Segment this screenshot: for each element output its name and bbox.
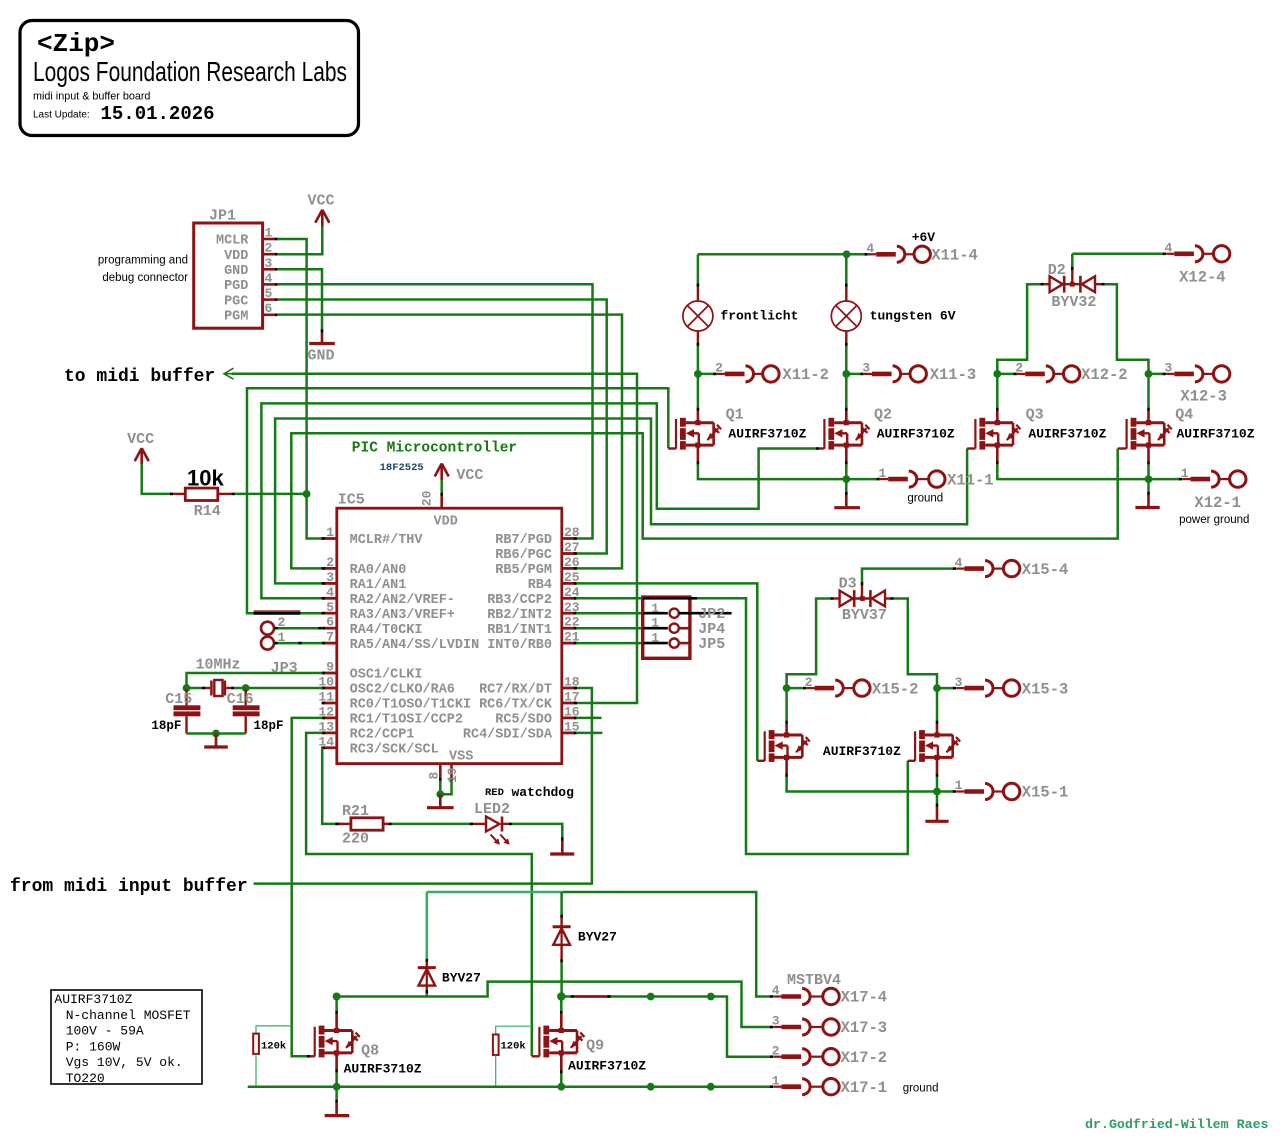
wire INT0 to JP5 [576, 642, 641, 645]
junction X15-1 node [933, 788, 941, 796]
wire RB3 net a [576, 597, 643, 600]
wire RB3 net b to X15 right gate [697, 598, 908, 854]
IC5 pin 21 INT0/RB0 [487, 630, 580, 653]
svg-text:18pF: 18pF [151, 719, 181, 733]
svg-text:VDD: VDD [434, 515, 458, 530]
wire X15 right drain [936, 688, 939, 721]
wire +6V rail [698, 253, 865, 256]
tungsten top lead [845, 284, 848, 287]
transistor Q8 [315, 1026, 422, 1077]
Q8 source lead [335, 1053, 338, 1070]
D2 right lead [1095, 283, 1101, 285]
svg-text:tungsten 6V: tungsten 6V [870, 309, 956, 324]
svg-text:RC2/CCP1: RC2/CCP1 [350, 728, 415, 743]
svg-text:Q8: Q8 [361, 1043, 379, 1060]
junction R14-MCLR [303, 490, 311, 498]
wire tungsten top [845, 254, 848, 284]
wire RB1 to JP4 [576, 627, 641, 630]
wire Q2 drain [845, 374, 848, 408]
tungsten bottom lead [845, 331, 847, 343]
JP1 pin 2 stub [263, 241, 278, 256]
wire Q8 source [335, 1072, 338, 1087]
junction X11-2 node [694, 370, 702, 378]
wire flyback rail [563, 892, 771, 997]
wire Q1 gate lead [668, 447, 676, 449]
diode D3 BYV37 [839, 576, 887, 625]
wire pin20 to VCC [440, 480, 443, 493]
JP1 pin 3 stub [263, 256, 278, 271]
svg-text:RB5/PGM: RB5/PGM [495, 563, 552, 578]
Q3 source lead [996, 445, 999, 462]
Q9 source lead [560, 1053, 563, 1071]
svg-text:MSTBV4: MSTBV4 [787, 972, 841, 989]
wire RC6 to midi buffer [232, 374, 637, 703]
svg-text:MCLR: MCLR [216, 234, 249, 249]
diode D2 BYV32 [1048, 262, 1097, 311]
Q1 source lead [697, 445, 700, 462]
transistor Q1 [676, 407, 807, 450]
Q3 drain lead [996, 408, 999, 411]
svg-text:from midi input buffer: from midi input buffer [10, 877, 248, 897]
IC5 pin 7 RA5/AN4/SS/LVDIN [322, 630, 480, 653]
wire Q9 drain to X17-2 [561, 997, 770, 1057]
X15 left mosfet drain lead [785, 721, 788, 724]
svg-text:1: 1 [651, 616, 659, 631]
svg-text:X12-2: X12-2 [1081, 366, 1128, 384]
wire RB3 black over JP2 box [643, 597, 697, 600]
connector X12-3 [1163, 361, 1230, 406]
transistor Q2 [824, 407, 955, 450]
frontlicht bottom lead [697, 331, 699, 343]
connector X11-3 [860, 361, 976, 385]
node to midi buffer arrow [224, 368, 234, 379]
wire Q8 source to ground sym [335, 1087, 338, 1101]
svg-text:10MHz: 10MHz [196, 657, 241, 674]
IC5 pin 6 RA4/T0CKI [322, 615, 423, 638]
wire dark red segment on X17-2 net [574, 995, 607, 998]
wire PGM JP1 pin6 to IC5 pin26 [277, 315, 622, 569]
svg-text:4: 4 [1164, 241, 1172, 256]
svg-text:18F2525: 18F2525 [380, 462, 424, 474]
svg-text:programming and: programming and [98, 255, 188, 267]
wire X15 ground [936, 792, 939, 805]
connector X15-2 [803, 675, 918, 699]
ground below crystal caps [204, 734, 228, 748]
IC5 pin 25 RB4 [528, 570, 580, 593]
ground below LED2 [550, 837, 574, 854]
wire Q8 drain down [335, 997, 338, 1012]
JP1 pin 5 stub [263, 286, 278, 301]
diode BYV27 right [553, 927, 617, 945]
svg-text:4: 4 [265, 271, 273, 286]
resistor 120k at Q9 [493, 1026, 532, 1087]
JP1 pin 1 stub [263, 226, 278, 241]
wire RA1 to Q3 gate [275, 419, 967, 584]
junction dot b on X17-2 net [707, 993, 715, 1001]
IC5 pin 11 RC0/T1OSO/T1CKI [318, 690, 471, 713]
svg-text:<Zip>: <Zip> [37, 29, 115, 59]
op-amp IC5 PIC box [337, 508, 562, 763]
svg-text:2: 2 [1015, 361, 1023, 376]
wire RC4 stub [576, 732, 602, 735]
wire Q4 gate lead [1118, 447, 1127, 449]
connector X17-2 [770, 1043, 887, 1067]
svg-text:VCC: VCC [127, 431, 154, 448]
svg-text:RC0/T1OSO/T1CKI: RC0/T1OSO/T1CKI [350, 698, 472, 713]
IC5 pin 8 VSS stub [439, 764, 442, 779]
svg-text:3: 3 [862, 361, 870, 376]
tick JP3 wire a [274, 627, 277, 630]
svg-text:AUIRF3710Z: AUIRF3710Z [877, 426, 955, 441]
svg-text:BYV27: BYV27 [442, 971, 481, 986]
svg-text:AUIRF3710Z: AUIRF3710Z [823, 744, 901, 759]
IC5 pin 3 RA1/AN1 [322, 570, 407, 593]
junction +6V tungsten [843, 250, 851, 258]
tick JP3 wire b [274, 642, 277, 645]
wire RB2 to JP2 [576, 612, 641, 615]
svg-text:X17-2: X17-2 [841, 1049, 888, 1067]
wire RC3 to R21 [322, 748, 343, 824]
wire Q3 drain [996, 374, 999, 408]
IC5 pin 20 VDD stub [440, 495, 443, 508]
connector X15-1 [953, 778, 1069, 802]
junction Q4 source [1145, 475, 1153, 483]
connector X12-1 [1179, 466, 1250, 526]
wire Q2 source to ground [845, 479, 848, 492]
JP1 pin 4 stub [263, 271, 278, 286]
wire Q1 drain [697, 374, 700, 408]
svg-text:midi input & buffer board: midi input & buffer board [33, 91, 150, 103]
wire pin8 to gnd [439, 781, 442, 795]
transistor Q3 [975, 407, 1106, 450]
svg-text:7: 7 [326, 630, 334, 645]
svg-text:9: 9 [326, 660, 334, 675]
IC5 pin 26 RB5/PGM [495, 555, 580, 578]
wire BYV27b top [560, 892, 563, 915]
connector X17-1 [770, 1073, 939, 1097]
svg-text:X15-3: X15-3 [1022, 680, 1069, 698]
wire X15 right gate lead [908, 760, 915, 762]
wire Q9 source [560, 1073, 563, 1087]
svg-text:AUIRF3710Z: AUIRF3710Z [344, 1062, 422, 1077]
junction pins 8-19 [436, 790, 444, 798]
LED LED2 [470, 785, 574, 845]
wire D3 anode right [894, 599, 937, 689]
title block frame [20, 21, 359, 136]
junction Q8 source [333, 1083, 341, 1091]
wire crystal right to OSC2 [234, 687, 246, 690]
X15 right mosfet drain lead [936, 721, 939, 724]
wire Q9 gate lead [532, 1055, 540, 1057]
IC5 pin 5 RA3/AN3/VREF+ [322, 600, 455, 623]
connector X11-1 [877, 466, 994, 505]
svg-text:5: 5 [326, 600, 334, 615]
junction dot a on ground rail [647, 1083, 655, 1091]
wire MCLR net JP1 to IC5 pin1 and R14 [277, 239, 322, 539]
X15 left source lead [785, 757, 788, 774]
svg-text:1: 1 [955, 778, 963, 793]
svg-text:VCC: VCC [456, 467, 483, 484]
svg-text:X12-1: X12-1 [1194, 494, 1241, 512]
transistor Q right of X15 [915, 730, 960, 762]
LED2 lead right [502, 823, 509, 825]
connector X17-3 [770, 1014, 887, 1038]
wire to X15-2 [787, 687, 804, 690]
IC5 pin 17 RC6/TX/CK [479, 690, 580, 713]
svg-text:1: 1 [878, 466, 886, 481]
svg-text:14: 14 [318, 734, 334, 749]
svg-text:10k: 10k [187, 466, 224, 491]
svg-text:220: 220 [342, 831, 369, 848]
svg-text:X17-1: X17-1 [841, 1079, 888, 1097]
svg-text:AUIRF3710Z: AUIRF3710Z [54, 992, 132, 1007]
svg-text:OSC2/CLKO/RA6: OSC2/CLKO/RA6 [350, 683, 455, 698]
svg-text:2: 2 [772, 1043, 780, 1058]
wire ground rail to X17-1 [248, 1085, 771, 1088]
wire RC2 to Q9 gate [306, 733, 532, 1056]
wire D3 anode left [787, 599, 831, 689]
svg-text:frontlicht: frontlicht [720, 309, 798, 324]
junction Q9 drain [557, 992, 565, 1000]
D3 right lead [885, 597, 890, 599]
D3 center lead [861, 582, 864, 585]
wire D2 anode left to Q3 drain node [997, 284, 1040, 374]
connector X11-2 [713, 361, 829, 385]
connector X12-2 [1014, 361, 1128, 385]
wire VCC to R14 [142, 464, 172, 494]
svg-text:RED: RED [485, 787, 504, 799]
svg-text:Q1: Q1 [726, 407, 744, 424]
wire VDD JP1 pin2 to VCC [277, 225, 322, 254]
IC5 pin 14 RC3/SCK/SCL [318, 734, 438, 757]
wire RC5 stub [576, 717, 601, 720]
svg-text:dr.Godfried-Willem Raes: dr.Godfried-Willem Raes [1085, 1117, 1269, 1132]
svg-text:X11-2: X11-2 [782, 366, 829, 384]
wire RA3 to Q1 gate [247, 388, 668, 613]
svg-text:18: 18 [564, 675, 580, 690]
wire X15-4 net [862, 569, 953, 583]
svg-text:AUIRF3710Z: AUIRF3710Z [1028, 426, 1106, 441]
Q2 source lead [845, 445, 848, 462]
svg-text:PIC Microcontroller: PIC Microcontroller [352, 441, 517, 457]
wire R21 to LED2 [392, 823, 472, 826]
BYV27a bottom lead [426, 986, 428, 991]
svg-text:120k: 120k [261, 1041, 286, 1053]
svg-text:1: 1 [265, 226, 273, 241]
IC5 pin 19 VSS stub [450, 764, 453, 779]
diode BYV27 left [418, 968, 481, 986]
Q1 drain lead [697, 408, 700, 411]
Q4 source lead [1147, 445, 1150, 462]
D2 left lead [1044, 283, 1050, 285]
wire D2 anode right to Q4 drain node [1105, 284, 1149, 374]
svg-text:RC7/RX/DT: RC7/RX/DT [479, 683, 552, 698]
wire X15 sources [787, 777, 937, 792]
junction X11-3 node [842, 370, 850, 378]
wire RA2 to Q2 gate [261, 403, 816, 598]
IC5 pin 16 RC5/SDO [495, 704, 580, 727]
junction crystal right [242, 684, 250, 692]
IC5 pin 28 RB7/PGD [495, 525, 580, 548]
svg-text:RB3/CCP2: RB3/CCP2 [487, 593, 552, 608]
svg-text:4: 4 [866, 241, 874, 256]
svg-text:Logos Foundation Research Labs: Logos Foundation Research Labs [33, 56, 347, 87]
svg-text:RB1/INT1: RB1/INT1 [487, 623, 552, 638]
connector JP3 pin 1 [261, 637, 274, 650]
svg-text:VSS: VSS [449, 750, 473, 765]
wire Q1 source to X11-1 [698, 464, 877, 479]
power VCC at JP1 [308, 193, 335, 227]
connector JP2 JP4 JP5 box [643, 597, 690, 658]
svg-text:8: 8 [426, 772, 441, 780]
power VCC at R14 [127, 431, 154, 465]
svg-text:2: 2 [715, 361, 723, 376]
svg-text:RA3/AN3/VREF+: RA3/AN3/VREF+ [350, 608, 455, 623]
wire OSC1 to crystal [187, 673, 323, 688]
wire frontlicht bottom [697, 346, 700, 374]
svg-text:3: 3 [955, 675, 963, 690]
connector JP5 pin [643, 631, 725, 654]
svg-text:3: 3 [265, 256, 273, 271]
svg-text:IC5: IC5 [338, 492, 365, 509]
junction caps ground [212, 730, 220, 738]
wire X15 left gate lead [757, 760, 764, 762]
svg-text:11: 11 [318, 690, 334, 705]
svg-text:RA0/AN0: RA0/AN0 [350, 563, 407, 578]
wire LED2 to ground [512, 824, 562, 838]
svg-text:BYV27: BYV27 [578, 930, 617, 945]
capacitor C16 [227, 689, 284, 734]
junction dot b on ground rail [707, 1083, 715, 1091]
capacitor C15 [151, 689, 200, 734]
svg-text:RB2/INT2: RB2/INT2 [487, 608, 552, 623]
svg-text:GND: GND [308, 347, 335, 364]
IC5 pin 10 OSC2/CLKO/RA6 [318, 675, 455, 698]
svg-text:1: 1 [651, 631, 659, 646]
svg-text:RC1/T1OSI/CCP2: RC1/T1OSI/CCP2 [350, 713, 463, 728]
junction X12-3 node [1145, 370, 1153, 378]
svg-text:RC4/SDI/SDA: RC4/SDI/SDA [463, 728, 553, 743]
IC5 pin 23 RB2/INT2 [487, 600, 580, 623]
wire Q2 source [845, 464, 848, 479]
ground below Q4 [1135, 492, 1159, 508]
IC5 pin 22 RB1/INT1 [487, 615, 580, 638]
Q9 drain lead [560, 1011, 563, 1014]
resistor R21 [342, 803, 383, 848]
wire to X11-2 [698, 373, 714, 376]
svg-text:26: 26 [564, 555, 580, 570]
wire Q8 drain to X17-3 [337, 982, 771, 1027]
wire BYV27b to Q9 drain net [560, 962, 563, 996]
svg-text:RA1/AN1: RA1/AN1 [350, 578, 407, 593]
svg-text:AUIRF3710Z: AUIRF3710Z [728, 426, 806, 441]
svg-text:ground: ground [903, 1082, 939, 1094]
connector JP1 [194, 208, 263, 329]
resistor 120k at Q8 [253, 1026, 292, 1087]
svg-text:RA2/AN2/VREF-: RA2/AN2/VREF- [350, 593, 455, 608]
svg-text:17: 17 [564, 690, 580, 705]
svg-text:R21: R21 [342, 803, 369, 820]
wire R14 to MCLR net [235, 493, 307, 496]
wire C15 C16 to ground [187, 732, 246, 735]
wire JP3-1 to RA5 [274, 642, 322, 645]
resistor R14 lead right [218, 493, 232, 495]
wire OSC2 pin10 [246, 687, 323, 690]
svg-text:BYV37: BYV37 [842, 607, 887, 624]
frontlicht top lead [697, 284, 700, 287]
wire Q9 drain down [560, 997, 563, 1012]
svg-text:5: 5 [265, 286, 273, 301]
IC5 pin 24 RB3/CCP2 [487, 585, 580, 608]
svg-text:power ground: power ground [1179, 514, 1249, 526]
svg-text:X12-4: X12-4 [1179, 269, 1226, 287]
junction crystal left [183, 684, 191, 692]
svg-text:INT0/RB0: INT0/RB0 [487, 638, 552, 653]
lamp tungsten 6V [831, 301, 955, 331]
wire tungsten bottom [845, 346, 848, 374]
IC5 pin 4 RA2/AN2/VREF- [322, 585, 455, 608]
svg-text:1: 1 [651, 601, 659, 616]
svg-text:LED2: LED2 [474, 801, 510, 818]
svg-text:27: 27 [564, 540, 580, 555]
svg-text:GND: GND [224, 264, 248, 279]
transistor Q9 [539, 1026, 646, 1074]
svg-text:RC6/TX/CK: RC6/TX/CK [479, 698, 553, 713]
junction dot a on X17-2 net [647, 993, 655, 1001]
svg-text:100V - 59A: 100V - 59A [66, 1024, 144, 1039]
D2 center lead [1071, 267, 1074, 270]
junction Q8 drain [333, 993, 341, 1001]
svg-text:N-channel MOSFET: N-channel MOSFET [66, 1008, 191, 1023]
IC5 pin 15 RC4/SDI/SDA [463, 719, 580, 742]
svg-text:Q9: Q9 [586, 1038, 604, 1055]
svg-text:ground: ground [907, 492, 943, 504]
Q4 drain lead [1147, 408, 1150, 411]
svg-text:2: 2 [805, 675, 813, 690]
svg-text:RC3/SCK/SCL: RC3/SCK/SCL [350, 742, 439, 757]
svg-text:RA4/T0CKI: RA4/T0CKI [350, 623, 423, 638]
svg-text:VCC: VCC [308, 193, 335, 210]
wire Q8 gate lead [307, 1055, 310, 1058]
JP1 pin 6 stub [263, 301, 278, 316]
connector X11-4 [865, 241, 978, 265]
BYV27b bottom lead [560, 945, 562, 960]
wire black segment on RA3 net [254, 612, 301, 615]
wire X12-4 to D2 [1071, 254, 1074, 267]
wire X15 right source [936, 777, 939, 792]
ground below IC5 [427, 794, 454, 808]
resistor R21 lead left [335, 823, 338, 826]
svg-text:28: 28 [564, 525, 580, 540]
wire to X12-3 [1149, 373, 1164, 376]
wire RC7 from midi input buffer [254, 688, 592, 884]
svg-text:OSC1/CLKI: OSC1/CLKI [350, 668, 423, 683]
connector X12-4 [1163, 241, 1230, 287]
junction X15-3 node [933, 684, 941, 692]
svg-text:JP1: JP1 [209, 208, 236, 225]
wire BYV27a top [426, 892, 429, 960]
wire PGC JP1 pin5 to IC5 pin27 [277, 300, 607, 554]
svg-text:PGD: PGD [224, 279, 248, 294]
svg-text:D3: D3 [839, 576, 857, 593]
wire RB4 to X15 left gate [576, 583, 757, 760]
wire X15 left drain [785, 688, 788, 721]
Q2 drain lead [845, 408, 848, 411]
info box AUIRF3710Z [51, 990, 202, 1086]
svg-text:20: 20 [420, 490, 435, 506]
wire PGD JP1 pin4 to IC5 pin28 [277, 284, 593, 538]
svg-text:RB4: RB4 [528, 578, 552, 593]
